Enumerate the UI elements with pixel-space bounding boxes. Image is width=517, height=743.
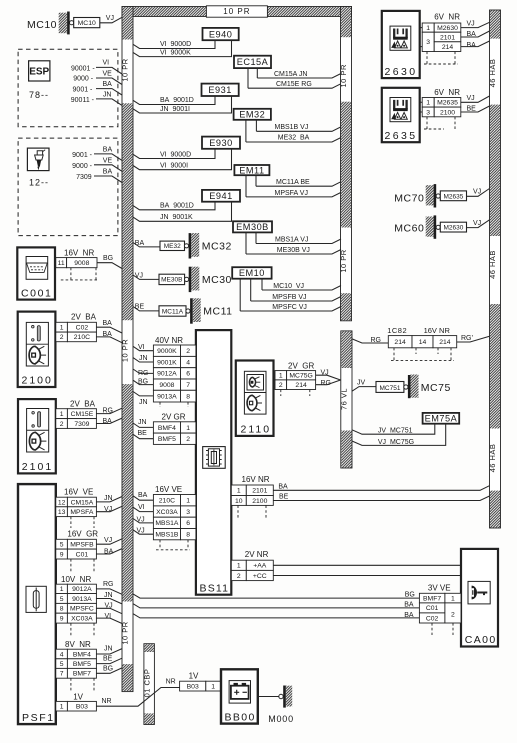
- wire VJ MBS1B to band: [133, 527, 153, 534]
- svg-text:40V NR: 40V NR: [155, 336, 183, 345]
- svg-text:E940: E940: [209, 29, 232, 39]
- svg-text:VJ: VJ: [467, 20, 475, 27]
- wire VJ MBS1A to band: [133, 516, 153, 523]
- svg-text:13: 13: [58, 509, 66, 516]
- unit EM11: [234, 165, 269, 175]
- svg-text:3: 3: [426, 39, 430, 46]
- svg-text:210C: 210C: [159, 498, 175, 505]
- svg-text:9: 9: [60, 551, 64, 558]
- svg-text:C02: C02: [76, 325, 89, 332]
- svg-text:BMF4: BMF4: [158, 425, 176, 432]
- svg-text:2100: 2100: [440, 109, 455, 116]
- svg-text:1: 1: [237, 488, 241, 495]
- svg-text:JN: JN: [104, 645, 113, 652]
- svg-text:1V: 1V: [73, 692, 83, 701]
- unit EM32: [234, 109, 271, 120]
- svg-text:1V: 1V: [189, 671, 199, 680]
- wire BG BMF7 to band: [96, 666, 122, 674]
- svg-text:B03: B03: [76, 704, 88, 711]
- svg-text:EM75A: EM75A: [425, 414, 458, 424]
- svg-text:BA: BA: [135, 240, 145, 247]
- unit E930: [202, 137, 240, 149]
- svg-text:12: 12: [58, 499, 66, 506]
- svg-text:9001K: 9001K: [157, 359, 177, 366]
- svg-text:214: 214: [295, 382, 307, 389]
- svg-text:2101: 2101: [440, 34, 455, 41]
- svg-text:ME30B: ME30B: [161, 277, 182, 284]
- svg-text:1: 1: [279, 373, 283, 380]
- svg-text:M000: M000: [268, 714, 294, 724]
- wire MBS1A VJ from EM30B: [256, 232, 341, 243]
- wire BG 9008 to band: [133, 378, 153, 385]
- wire MPSFB VJ from EM10: [251, 279, 341, 301]
- svg-text:VJ: VJ: [106, 15, 114, 22]
- wire VI 9000I to E930: [133, 149, 232, 170]
- svg-text:MC11: MC11: [203, 306, 232, 318]
- wire MBS1B VJ from EM32: [256, 120, 341, 132]
- svg-text:1: 1: [451, 595, 455, 602]
- svg-text:M2635: M2635: [443, 193, 463, 200]
- svg-text:VE: VE: [103, 158, 113, 165]
- svg-text:9012A: 9012A: [72, 586, 92, 593]
- unit PSF1 engine fusebox: [18, 484, 56, 724]
- svg-text:JN: JN: [139, 355, 148, 362]
- svg-text:MC751: MC751: [380, 385, 401, 392]
- pin table PSF1 16V VE: [56, 488, 97, 529]
- svg-text:BE: BE: [279, 494, 289, 501]
- svg-text:8: 8: [186, 532, 190, 539]
- svg-text:46 HAB: 46 HAB: [488, 250, 497, 279]
- unit 2100 courtesy lamp: [18, 312, 56, 387]
- svg-text:7: 7: [60, 671, 64, 678]
- svg-text:BA: BA: [103, 81, 113, 88]
- label box 10 PR on top band: [206, 6, 267, 17]
- svg-text:MPSFB: MPSFB: [70, 542, 94, 549]
- svg-text:10 PR: 10 PR: [223, 7, 250, 16]
- wire VJ MC75G to 76VL: [316, 369, 341, 380]
- svg-text:+CC: +CC: [253, 573, 267, 580]
- svg-text:3: 3: [426, 109, 430, 116]
- svg-text:MPSFC: MPSFC: [70, 606, 94, 613]
- pin table 2100 2V BA: [56, 313, 97, 342]
- svg-text:JV MC751: JV MC751: [378, 427, 413, 434]
- unit CA00 ignition switch: [461, 549, 498, 647]
- svg-text:1: 1: [60, 411, 64, 418]
- svg-text:90001 -: 90001 -: [71, 65, 95, 72]
- wire VJ MC10 to band: [100, 15, 122, 23]
- wire BA C02 long from band: [133, 612, 419, 619]
- unit EM30B: [233, 221, 272, 232]
- wire BE BMF5 to band: [96, 655, 122, 663]
- svg-text:2V NR: 2V NR: [245, 550, 269, 559]
- svg-text:JN 9001I: JN 9001I: [160, 106, 190, 113]
- pin table BS11 16V NR right: [231, 475, 273, 519]
- svg-text:BMF5: BMF5: [158, 436, 176, 443]
- svg-text:6V NR: 6V NR: [434, 88, 460, 97]
- svg-text:JN: JN: [139, 399, 148, 406]
- svg-text:9008: 9008: [159, 382, 174, 389]
- svg-text:6: 6: [186, 371, 190, 378]
- svg-text:16V VE: 16V VE: [64, 488, 93, 497]
- svg-text:6: 6: [186, 520, 190, 527]
- svg-text:E941: E941: [209, 191, 232, 201]
- svg-text:XC03A: XC03A: [156, 509, 178, 516]
- svg-text:2: 2: [60, 334, 64, 341]
- svg-text:MPSFC VJ: MPSFC VJ: [272, 304, 307, 311]
- unit BB00 battery: [221, 669, 258, 723]
- svg-text:CM15A JN: CM15A JN: [274, 71, 307, 78]
- wire JN 9001K to band: [133, 355, 153, 362]
- svg-text:5: 5: [60, 542, 64, 549]
- svg-text:46 HAB: 46 HAB: [488, 59, 497, 88]
- svg-text:C01: C01: [426, 605, 439, 612]
- ground MC10: [27, 12, 100, 35]
- pin table BS11 40V NR: [153, 336, 196, 407]
- svg-text:2630: 2630: [385, 66, 418, 78]
- svg-text:2100: 2100: [252, 498, 267, 505]
- wire BA C01 long from band: [133, 602, 419, 609]
- svg-text:BMF4: BMF4: [73, 651, 91, 658]
- svg-text:1: 1: [60, 586, 64, 593]
- svg-text:VI: VI: [103, 60, 110, 67]
- svg-text:C02: C02: [426, 615, 439, 622]
- svg-text:8: 8: [60, 606, 64, 613]
- wire VI 9000D to E930: [133, 149, 215, 159]
- svg-text:10V NR: 10V NR: [61, 575, 91, 584]
- svg-text:MC32: MC32: [202, 240, 232, 252]
- svg-text:9013A: 9013A: [157, 394, 177, 401]
- svg-text:MBS1A VJ: MBS1A VJ: [275, 236, 308, 243]
- wire +CC to CA00: [273, 575, 461, 577]
- wire RG 214 to 76VL: [316, 380, 341, 387]
- wire RG 9012A to band: [133, 369, 153, 377]
- svg-text:M2630: M2630: [437, 25, 458, 32]
- wire BA 210C to band: [96, 331, 122, 343]
- svg-text:MC75: MC75: [421, 382, 451, 394]
- svg-text:46 HAB: 46 HAB: [488, 444, 497, 473]
- svg-text:5: 5: [60, 596, 64, 603]
- svg-text:VI 9000D: VI 9000D: [160, 41, 191, 48]
- svg-text:1: 1: [60, 325, 64, 332]
- svg-text:2V GR: 2V GR: [288, 362, 314, 371]
- harness band 10 PR top horizontal: [122, 7, 352, 17]
- svg-text:MC11A BE: MC11A BE: [276, 179, 310, 186]
- svg-text:10: 10: [235, 498, 243, 505]
- pin table C001 16V NR: [56, 248, 97, 280]
- svg-text:MC60: MC60: [394, 223, 424, 235]
- svg-text:11: 11: [58, 260, 65, 267]
- wire BE 2100 to 46HAB: [461, 106, 490, 113]
- svg-text:BE: BE: [103, 655, 113, 662]
- svg-text:2: 2: [186, 436, 190, 443]
- svg-text:9000 -: 9000 -: [73, 76, 94, 83]
- svg-text:BMF7: BMF7: [73, 671, 91, 678]
- svg-text:10 PR: 10 PR: [121, 621, 130, 644]
- svg-text:MPSFA: MPSFA: [70, 509, 94, 516]
- wire RG CM15E to band: [96, 408, 122, 415]
- svg-text:78--: 78--: [29, 90, 49, 100]
- svg-text:VI 9000K: VI 9000K: [160, 49, 191, 56]
- svg-text:2V GR: 2V GR: [162, 412, 186, 421]
- svg-text:9: 9: [60, 616, 64, 623]
- svg-text:90011 -: 90011 -: [71, 97, 95, 104]
- wire VI 9000K to band: [133, 344, 153, 351]
- harness band 10 PR right vertical: [339, 7, 351, 321]
- wire BA C01 to band: [96, 548, 122, 555]
- svg-text:BE: BE: [138, 430, 148, 437]
- wire 90011 JN: [71, 91, 122, 105]
- wire NR B03 to BB00: [96, 678, 179, 706]
- svg-text:9008: 9008: [74, 260, 89, 267]
- svg-text:CM15E: CM15E: [71, 411, 94, 418]
- svg-text:7: 7: [186, 382, 190, 389]
- svg-text:VI 9000D: VI 9000D: [160, 151, 191, 158]
- svg-text:2110: 2110: [241, 424, 272, 436]
- svg-text:2100: 2100: [22, 375, 53, 387]
- harness band 01 CBP: [142, 644, 154, 725]
- svg-text:2: 2: [186, 348, 190, 355]
- svg-text:VJ MC75G: VJ MC75G: [378, 439, 414, 446]
- svg-text:C001: C001: [21, 288, 53, 300]
- svg-text:1: 1: [426, 25, 430, 32]
- wire VJ M2635 to 46HAB: [461, 95, 490, 102]
- svg-text:9001 -: 9001 -: [73, 86, 94, 93]
- wire MPSFC VJ from EM10: [240, 279, 341, 311]
- wire ME30B VJ from EM30B: [246, 232, 341, 254]
- svg-text:VI: VI: [138, 504, 145, 511]
- svg-text:76 VL: 76 VL: [340, 388, 349, 410]
- svg-text:10 PR: 10 PR: [121, 58, 130, 81]
- wire BE BMF5 to band: [133, 430, 153, 439]
- svg-text:JN: JN: [103, 91, 112, 98]
- svg-text:PSF1: PSF1: [22, 712, 55, 724]
- pin table 2630 6V NR: [420, 13, 461, 64]
- svg-text:MBS1B: MBS1B: [155, 532, 179, 539]
- svg-text:7309: 7309: [76, 174, 92, 181]
- svg-text:9001 -: 9001 -: [72, 152, 93, 159]
- svg-text:2: 2: [279, 382, 283, 389]
- svg-text:MPSFB VJ: MPSFB VJ: [272, 294, 306, 301]
- wire ME32 BA from EM32: [246, 120, 341, 142]
- svg-text:XC03A: XC03A: [71, 616, 93, 623]
- svg-text:7309: 7309: [74, 421, 89, 428]
- wire VJ MPSFC to band: [96, 602, 122, 613]
- svg-text:BA: BA: [103, 146, 113, 153]
- wire RG band to 1C82: [352, 337, 389, 344]
- svg-text:16V NR: 16V NR: [242, 475, 270, 484]
- svg-text:BMF5: BMF5: [73, 661, 91, 668]
- svg-text:E931: E931: [208, 85, 231, 95]
- wire VJ MC70 to 46HAB: [467, 189, 490, 197]
- wire BG BMF7 long from band: [133, 592, 419, 599]
- ground MC70: [394, 184, 466, 207]
- svg-text:MBS1A: MBS1A: [155, 520, 179, 527]
- svg-text:214: 214: [439, 339, 451, 346]
- svg-text:4: 4: [186, 359, 190, 366]
- svg-text:BA: BA: [103, 169, 113, 176]
- svg-text:EM10: EM10: [239, 268, 265, 278]
- svg-text:BA: BA: [103, 320, 113, 327]
- wire VJ MPSFB to band: [96, 537, 122, 544]
- svg-text:2: 2: [237, 573, 241, 580]
- harness band 46 HAB: [488, 10, 500, 528]
- svg-text:C01: C01: [76, 551, 89, 558]
- svg-text:VJ: VJ: [135, 272, 143, 279]
- wire VI XC03A to band: [133, 504, 153, 512]
- svg-text:BA 9001D: BA 9001D: [160, 203, 194, 210]
- svg-text:9012A: 9012A: [157, 371, 177, 378]
- harness band 10 PR left vertical: [121, 7, 133, 692]
- svg-text:9000 -: 9000 -: [72, 163, 93, 170]
- svg-text:B03: B03: [187, 683, 199, 690]
- svg-text:1: 1: [211, 683, 215, 690]
- svg-text:M2635: M2635: [437, 100, 458, 107]
- svg-text:9000K: 9000K: [157, 348, 177, 355]
- wire BA 210C to band: [133, 492, 153, 500]
- wire RG 9012A to band: [96, 581, 122, 595]
- svg-text:1: 1: [186, 425, 190, 432]
- svg-text:EM30B: EM30B: [236, 222, 269, 232]
- unit EM75A: [423, 413, 460, 424]
- svg-text:3V VE: 3V VE: [428, 583, 451, 592]
- ground MC11 with wire BE: [133, 298, 233, 323]
- svg-text:14: 14: [419, 339, 427, 346]
- svg-text:NR: NR: [166, 678, 176, 685]
- pin table PSF1 1V: [56, 692, 97, 711]
- ground MC60: [394, 215, 466, 238]
- svg-text:1: 1: [186, 498, 190, 505]
- svg-text:3: 3: [186, 509, 190, 516]
- svg-text:1: 1: [60, 704, 64, 711]
- svg-text:ME32: ME32: [164, 243, 181, 250]
- svg-text:10 PR: 10 PR: [339, 249, 348, 272]
- svg-text:210C: 210C: [74, 334, 90, 341]
- wire JN CM15A to band: [96, 495, 122, 502]
- wire 9000 VE: [73, 70, 122, 84]
- wire BA 214 to 46HAB: [461, 41, 490, 49]
- svg-text:MC30: MC30: [202, 274, 232, 286]
- wire 9001 BA: [72, 146, 122, 160]
- pin table BS11 2V NR right: [231, 550, 273, 580]
- svg-text:2: 2: [60, 421, 64, 428]
- ground MC32 with wire BA: [133, 233, 232, 258]
- svg-text:MC11A: MC11A: [162, 308, 184, 315]
- svg-text:16V GR: 16V GR: [67, 530, 98, 539]
- svg-text:2101: 2101: [252, 488, 267, 495]
- ground MC30 with wire VJ: [133, 267, 232, 292]
- svg-text:RG’: RG’: [461, 335, 474, 342]
- svg-text:2: 2: [451, 611, 455, 618]
- svg-text:8: 8: [186, 394, 190, 401]
- wire MPSFA VJ from EM11: [246, 175, 341, 197]
- svg-text:8V NR: 8V NR: [65, 640, 91, 649]
- svg-text:214: 214: [394, 339, 406, 346]
- svg-text:EM11: EM11: [239, 165, 264, 175]
- wire 9000 VE: [72, 158, 122, 172]
- harness band 76 VL: [340, 331, 352, 468]
- wire MC10 VJ from EM10: [262, 279, 341, 290]
- wire BA 9001D to E931: [133, 96, 215, 105]
- ground MC75: [352, 375, 451, 399]
- svg-text:CM15A: CM15A: [71, 499, 94, 506]
- wire VI 9000D to E940: [133, 40, 215, 48]
- svg-text:M2630: M2630: [443, 225, 463, 232]
- wire JN 9001K to E941: [133, 202, 232, 222]
- wire 7309 BA: [76, 169, 122, 183]
- svg-text:BG: BG: [405, 592, 415, 599]
- pin table PSF1 16V GR: [56, 530, 99, 572]
- wire RG' 1C82 to 46HAB: [457, 335, 490, 342]
- wire JN BMF4 to band: [96, 645, 122, 654]
- svg-text:ME30B VJ: ME30B VJ: [277, 247, 310, 254]
- svg-text:ESP: ESP: [29, 67, 49, 78]
- wire VJ MC75G from 76VL to EM75A: [352, 424, 446, 446]
- svg-text:9013A: 9013A: [72, 596, 92, 603]
- pin table 2635 6V NR: [420, 88, 461, 129]
- svg-text:JN: JN: [138, 419, 147, 426]
- wire BA 7309 to band: [96, 418, 122, 425]
- unit EM10: [232, 267, 271, 279]
- wire JN BMF4 to band: [133, 419, 153, 428]
- svg-text:BA 9001D: BA 9001D: [160, 97, 194, 104]
- unit 2630 seat pretensioner: [382, 11, 420, 78]
- wire +AA to CA00: [273, 564, 461, 566]
- svg-text:6V NR: 6V NR: [434, 13, 460, 22]
- svg-text:CA00: CA00: [465, 634, 497, 646]
- svg-text:1: 1: [237, 563, 241, 570]
- ESP unit dashed box 78: [18, 49, 118, 127]
- svg-text:VJ: VJ: [104, 537, 112, 544]
- svg-text:BA: BA: [138, 492, 148, 499]
- pin table BS11 16V VE: [153, 485, 196, 550]
- svg-text:2101: 2101: [22, 461, 53, 473]
- svg-text:16V VE: 16V VE: [155, 485, 182, 494]
- wire BG C001 to band: [97, 255, 122, 268]
- svg-text:ME32 BA: ME32 BA: [278, 134, 310, 141]
- svg-text:214: 214: [442, 44, 454, 51]
- unit 2635 seat pretensioner: [382, 88, 420, 142]
- svg-text:VI 9000I: VI 9000I: [160, 163, 188, 170]
- svg-text:MC70: MC70: [394, 192, 424, 204]
- svg-text:BA: BA: [278, 483, 288, 490]
- svg-text:EM32: EM32: [239, 110, 265, 120]
- svg-text:2V BA: 2V BA: [71, 313, 97, 322]
- svg-text:RG: RG: [103, 581, 114, 588]
- svg-text:16V NR: 16V NR: [424, 326, 451, 335]
- svg-text:BS11: BS11: [200, 582, 230, 594]
- wire CM15E RG from EC15A: [248, 68, 341, 88]
- wire JN 9013A to band: [133, 392, 153, 407]
- svg-text:MC10 VJ: MC10 VJ: [273, 283, 304, 290]
- pin table 1V B03: [180, 671, 221, 691]
- svg-text:5: 5: [60, 661, 64, 668]
- svg-text:NR: NR: [102, 698, 112, 705]
- svg-text:VE: VE: [103, 70, 113, 77]
- svg-text:MBS1B VJ: MBS1B VJ: [275, 124, 309, 131]
- wire VJ M2630 to 46HAB: [461, 20, 490, 27]
- svg-text:+AA: +AA: [253, 563, 267, 570]
- connector 1C82 16V NR: [387, 326, 457, 361]
- wire BA C02 to band: [96, 320, 122, 333]
- svg-text:BG: BG: [103, 666, 113, 673]
- svg-text:2V BA: 2V BA: [70, 400, 96, 409]
- pin table 2101 2V BA: [56, 400, 97, 429]
- unit 2101 courtesy lamp: [18, 399, 56, 473]
- svg-text:MPSFA VJ: MPSFA VJ: [275, 190, 308, 197]
- pin table 2110 2V GR: [274, 362, 316, 396]
- pin table PSF1 8V NR: [56, 640, 97, 692]
- unit EC15A: [234, 56, 271, 68]
